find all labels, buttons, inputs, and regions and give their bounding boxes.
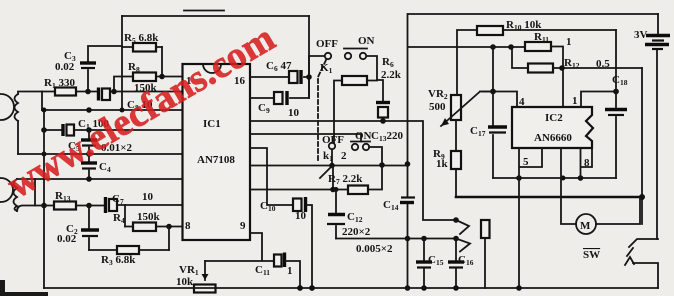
wire K1 vertical x309	[308, 16, 310, 98]
wire y238.5 line	[336, 238, 457, 240]
node pin4 dot	[490, 89, 496, 95]
wire pin1 net	[581, 92, 616, 108]
wire y121 line	[250, 120, 408, 122]
IC1 AN7108	[183, 64, 251, 240]
wire bottom rail	[44, 287, 658, 289]
resistor R4 150k	[113, 211, 183, 231]
capacitor C15	[416, 239, 444, 289]
svg-text:0.5: 0.5	[596, 58, 610, 70]
head PH1 (playback head)	[0, 92, 42, 155]
svg-text:ON: ON	[358, 35, 375, 47]
IC2 AN6660	[512, 107, 593, 148]
wire y110 line	[42, 109, 183, 111]
svg-text:R7 2.2k: R7 2.2k	[328, 173, 363, 186]
node junctions on R1 line	[85, 89, 91, 95]
svg-text:500: 500	[429, 101, 446, 113]
node R8 junction	[159, 74, 165, 80]
wire stub x423	[408, 121, 457, 220]
wire K2 OFF to y165 line	[331, 150, 333, 166]
svg-text:1k: 1k	[436, 158, 449, 170]
capacitor C3 0.02	[55, 46, 122, 92]
capacitor C16	[448, 239, 474, 289]
resistor R9 1k	[433, 120, 461, 197]
svg-text:5: 5	[523, 156, 529, 168]
node stub dot	[453, 217, 459, 223]
resistor R1 330	[42, 77, 97, 96]
switch K2	[320, 130, 372, 178]
svg-text:10: 10	[142, 191, 154, 203]
svg-text:2: 2	[341, 150, 347, 162]
wire branch x125 down to R4	[124, 205, 126, 227]
scan corner artifact	[0, 280, 5, 296]
svg-text:1: 1	[572, 95, 578, 107]
svg-text:220×2: 220×2	[342, 226, 371, 238]
svg-text:9: 9	[240, 220, 246, 232]
wire x168 stub	[168, 249, 170, 251]
svg-text:AN6660: AN6660	[534, 132, 572, 144]
node main vertical dots	[405, 161, 411, 167]
head PH2 (erase/rec head)	[0, 178, 35, 211]
capacitor C1 100	[44, 118, 183, 136]
resistor R13	[35, 190, 105, 210]
svg-text:M: M	[580, 220, 591, 232]
node x44 dots	[41, 203, 47, 209]
node C1 line dots	[41, 127, 47, 133]
svg-text:C13220: C13220	[371, 130, 403, 143]
node bottom rail dots	[297, 285, 303, 291]
capacitor C12 220x2	[327, 190, 371, 239]
node y179 dot	[86, 176, 92, 182]
svg-text:R5 6.8k: R5 6.8k	[124, 32, 159, 45]
node y178 dots	[516, 175, 522, 181]
capacitor C13 220	[371, 80, 403, 143]
svg-text:0.005×2: 0.005×2	[356, 243, 393, 255]
svg-text:3V: 3V	[634, 29, 648, 41]
potentiometer VR2 500	[428, 88, 493, 126]
capacitor C6 47	[250, 60, 309, 84]
svg-text:1: 1	[287, 265, 293, 277]
resistor R5 6.8k	[122, 32, 162, 52]
wire x642 vertical	[641, 68, 643, 224]
node y238.5 dots	[421, 236, 427, 242]
node y189 dots	[330, 187, 336, 193]
wire top rail right	[408, 13, 658, 15]
capacitor C14	[383, 198, 415, 213]
svg-text:SW: SW	[583, 249, 600, 261]
wire y154 line	[18, 153, 183, 155]
svg-text:150k: 150k	[137, 211, 161, 223]
node y165 dots	[329, 163, 335, 169]
resistor R6 2.2k	[334, 56, 402, 143]
wire pin8 net	[581, 148, 593, 178]
wire pin4 net	[482, 47, 517, 107]
capacitor C4	[81, 154, 111, 179]
node pin1 dot	[613, 89, 619, 95]
wire y178 line	[493, 177, 616, 179]
resistor R3 6.8k	[89, 227, 169, 268]
capacitor C2 0.02	[57, 206, 99, 251]
svg-text:10: 10	[288, 107, 300, 119]
svg-text:1: 1	[566, 36, 572, 48]
wire y47 line	[408, 46, 525, 48]
wire C10 route from IC1 pin	[250, 148, 293, 205]
switch SW	[583, 239, 658, 288]
svg-text:AN7108: AN7108	[197, 154, 235, 166]
capacitor C5 0.01x2	[68, 130, 133, 154]
potentiometer VR1 10k	[176, 261, 216, 293]
svg-text:IC2: IC2	[545, 112, 563, 124]
resistor R7 2.2k	[328, 147, 382, 194]
node y110 dots	[86, 107, 92, 113]
wire top rail left	[122, 15, 309, 17]
capacitor C8 (electrolytic on R1 line)	[99, 88, 184, 113]
svg-text:OFF: OFF	[316, 38, 338, 50]
switch K1	[309, 35, 375, 160]
node y47 dots	[490, 44, 496, 50]
wire vertical x408 main	[407, 14, 409, 288]
wire thick y197 line	[456, 196, 642, 199]
svg-text:IC1: IC1	[203, 118, 221, 130]
capacitor C10 10	[260, 197, 312, 288]
capacitor C9 10	[250, 56, 309, 119]
resistor R8 150k	[114, 61, 162, 94]
wire y189 line from IC1	[250, 189, 333, 191]
wire pin1 line into IC1	[162, 76, 183, 78]
wire vertical x122	[121, 16, 123, 110]
svg-text:8: 8	[584, 157, 590, 169]
wire pin5 net	[519, 148, 542, 288]
resistor R11	[525, 31, 572, 107]
capacitor C7 10	[106, 191, 184, 213]
wire vertical x42 branch	[41, 92, 43, 111]
capacitor C17	[470, 92, 507, 179]
svg-text:ON: ON	[355, 130, 372, 142]
svg-text:8: 8	[185, 220, 191, 232]
svg-text:0.02: 0.02	[57, 233, 77, 245]
svg-text:OFF: OFF	[322, 134, 344, 146]
svg-text:10: 10	[295, 210, 307, 222]
svg-text:R3 6.8k: R3 6.8k	[101, 254, 136, 267]
wire top rail scan artifact	[184, 10, 224, 12]
wire y165 line	[250, 165, 408, 167]
wire x162 R5 to pin1 line	[161, 47, 163, 77]
node R4 right dot	[166, 224, 172, 230]
node R12 line dot	[559, 65, 565, 71]
svg-text:R1 330: R1 330	[44, 77, 75, 90]
svg-text:0.02: 0.02	[55, 61, 75, 73]
node y154 dots	[42, 152, 47, 157]
svg-text:10k: 10k	[176, 276, 194, 288]
wire pin9 route	[205, 233, 274, 261]
resistor R10 10k	[457, 19, 616, 95]
switch J1 remote jack contacts	[456, 220, 490, 288]
node x642 dot	[639, 194, 645, 200]
svg-text:C6 47: C6 47	[266, 60, 292, 73]
motor M	[561, 148, 640, 234]
node R13 right dot	[86, 203, 92, 209]
resistor R12 0.5	[512, 47, 642, 73]
wire y134 line to K2 ON	[250, 134, 361, 142]
capacitor C18	[605, 30, 628, 178]
node y121 dot	[380, 118, 386, 124]
svg-text:2.2k: 2.2k	[381, 69, 402, 81]
wire vertical x44	[43, 110, 45, 288]
wire y179 line	[17, 178, 183, 180]
node C6 line dot	[306, 74, 312, 80]
battery B1 3V	[634, 14, 670, 239]
capacitor C11 1	[255, 253, 300, 289]
